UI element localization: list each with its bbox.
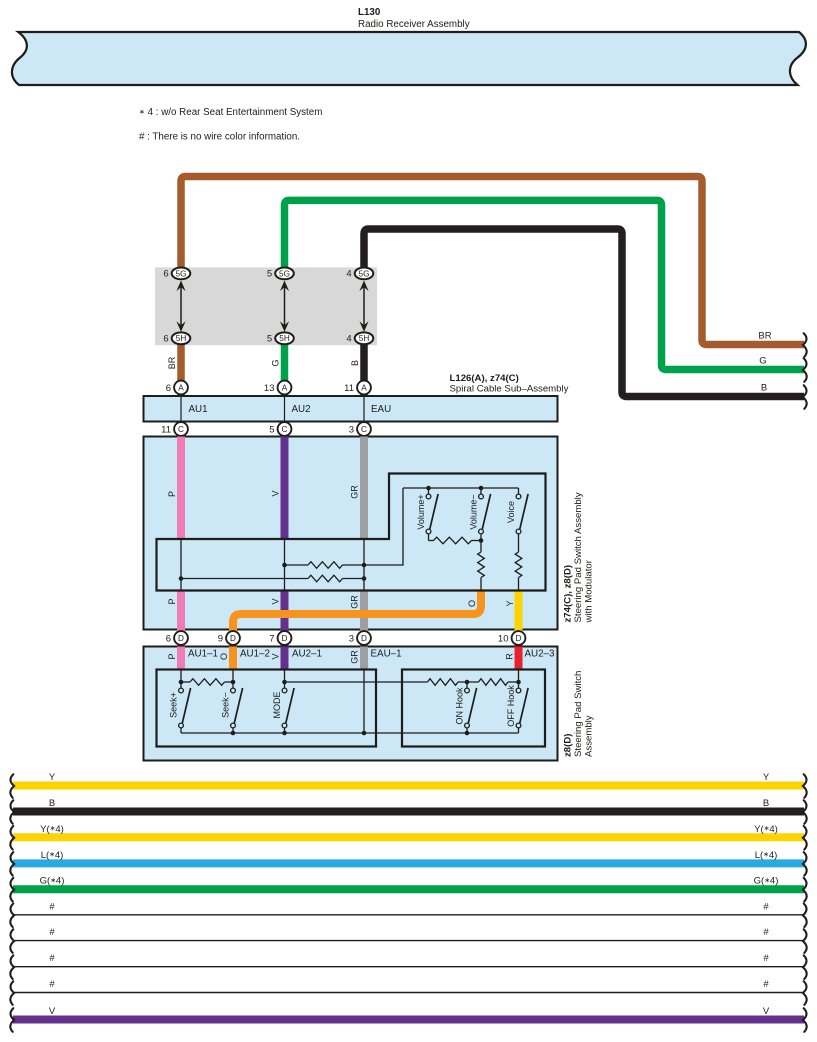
svg-text:6: 6 (166, 633, 171, 644)
svg-text:#: # (49, 979, 55, 990)
svg-text:3: 3 (349, 424, 354, 435)
svg-text:O: O (467, 600, 477, 607)
svg-text:6: 6 (166, 383, 171, 394)
svg-text:#: # (49, 927, 55, 938)
svg-text:G: G (759, 356, 766, 367)
svg-text:5H: 5H (279, 334, 290, 343)
svg-text:D: D (178, 634, 184, 643)
svg-text:Seek−: Seek− (220, 692, 230, 718)
svg-text:#: # (49, 953, 55, 964)
svg-text:A: A (282, 384, 288, 393)
svg-text:GR: GR (349, 650, 359, 664)
svg-text:A: A (361, 384, 367, 393)
svg-text:GR: GR (349, 485, 359, 499)
svg-text:Volume−: Volume− (468, 494, 478, 529)
svg-text:AU2–3: AU2–3 (525, 649, 556, 660)
svg-text:C: C (178, 425, 184, 434)
svg-text:Voice: Voice (506, 501, 516, 523)
svg-text:P: P (167, 598, 177, 604)
svg-text:6: 6 (163, 269, 168, 280)
svg-text:B: B (763, 798, 769, 809)
svg-text:6: 6 (163, 334, 168, 345)
svg-text:4: 4 (346, 269, 351, 280)
svg-text:#: # (763, 979, 769, 990)
svg-text:R: R (504, 653, 514, 660)
svg-text:D: D (361, 634, 367, 643)
svg-text:MODE: MODE (272, 692, 282, 719)
svg-text:V: V (49, 1006, 56, 1017)
svg-text:C: C (282, 425, 288, 434)
svg-text:L126(A), z74(C): L126(A), z74(C) (450, 373, 519, 384)
svg-text:#: # (763, 927, 769, 938)
svg-text:Radio Receiver Assembly: Radio Receiver Assembly (358, 19, 470, 30)
svg-text:P: P (167, 653, 177, 659)
svg-text:7: 7 (269, 633, 274, 644)
svg-text:BR: BR (167, 356, 177, 369)
svg-text:Steering Pad Switch: Steering Pad Switch (573, 671, 584, 757)
svg-text:EAU: EAU (371, 404, 391, 415)
svg-text:B: B (761, 383, 767, 394)
svg-text:D: D (282, 634, 288, 643)
svg-text:Assembly: Assembly (584, 715, 595, 757)
svg-text:#: # (49, 901, 55, 912)
svg-text:5: 5 (267, 334, 272, 345)
svg-text:EAU–1: EAU–1 (371, 649, 402, 660)
svg-text:B: B (49, 798, 55, 809)
svg-text:L130: L130 (358, 7, 381, 18)
svg-text:V: V (270, 653, 280, 659)
svg-text:Seek+: Seek+ (168, 692, 178, 718)
svg-text:4: 4 (346, 334, 351, 345)
svg-text:AU1–2: AU1–2 (240, 649, 270, 660)
svg-text:GR: GR (349, 595, 359, 609)
svg-text:5G: 5G (279, 269, 290, 278)
svg-text:AU1–1: AU1–1 (188, 649, 218, 660)
svg-text:ON Hook: ON Hook (454, 687, 464, 725)
svg-text:5H: 5H (176, 334, 187, 343)
svg-text:Y: Y (505, 600, 515, 606)
svg-text:AU2–1: AU2–1 (292, 649, 322, 660)
svg-text:10: 10 (498, 633, 509, 644)
svg-text:C: C (361, 425, 367, 434)
svg-text:13: 13 (264, 383, 275, 394)
svg-text:OFF Hook: OFF Hook (506, 685, 516, 727)
svg-text:P: P (167, 491, 177, 497)
svg-text:Y: Y (763, 772, 770, 783)
svg-text:Volume+: Volume+ (416, 494, 426, 529)
svg-text:Steering Pad Switch Assembly: Steering Pad Switch Assembly (573, 492, 584, 622)
svg-text:5: 5 (267, 269, 272, 280)
svg-text:#: # (763, 901, 769, 912)
svg-text:G: G (270, 359, 280, 366)
svg-text:D: D (230, 634, 236, 643)
svg-text:V: V (270, 490, 280, 496)
svg-text:V: V (270, 598, 280, 604)
svg-text:O: O (219, 653, 229, 660)
svg-text:# : There is no wire color inf: # : There is no wire color information. (139, 132, 300, 143)
svg-text:11: 11 (161, 424, 171, 435)
svg-text:5H: 5H (359, 334, 370, 343)
svg-text:9: 9 (218, 633, 223, 644)
svg-text:5G: 5G (176, 269, 187, 278)
svg-text:#: # (763, 953, 769, 964)
svg-text:A: A (178, 384, 184, 393)
svg-text:5G: 5G (359, 269, 370, 278)
svg-text:Y: Y (49, 772, 56, 783)
svg-text:AU1: AU1 (189, 404, 208, 415)
svg-text:∗ 4 : w/o Rear Seat Entertainm: ∗ 4 : w/o Rear Seat Entertainment System (139, 107, 322, 118)
svg-text:11: 11 (344, 383, 354, 394)
svg-text:3: 3 (349, 633, 354, 644)
svg-text:B: B (350, 360, 360, 366)
svg-text:AU2: AU2 (292, 404, 311, 415)
svg-text:BR: BR (758, 331, 771, 342)
svg-text:5: 5 (269, 424, 274, 435)
svg-text:z74(C), z8(D): z74(C), z8(D) (563, 565, 574, 623)
svg-text:V: V (763, 1006, 770, 1017)
svg-text:with Modulator: with Modulator (584, 559, 595, 623)
svg-text:D: D (516, 634, 522, 643)
svg-text:Spiral Cable Sub–Assembly: Spiral Cable Sub–Assembly (450, 384, 569, 395)
svg-text:z8(D): z8(D) (563, 734, 574, 757)
